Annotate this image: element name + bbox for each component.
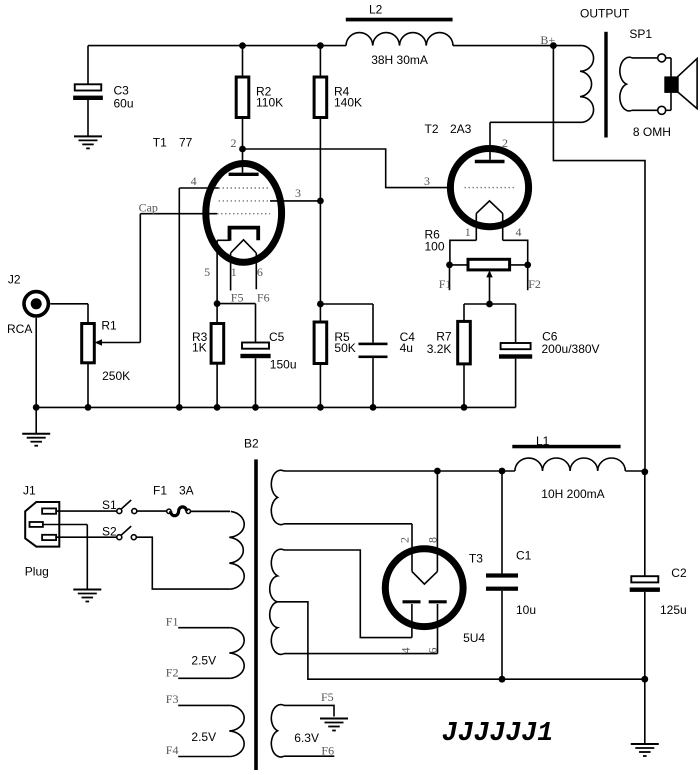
svg-text:4: 4 <box>516 225 522 239</box>
svg-text:140K: 140K <box>334 96 362 110</box>
svg-text:JJJJJJ1: JJJJJJ1 <box>442 718 553 748</box>
svg-text:Plug: Plug <box>25 564 49 578</box>
svg-text:F4: F4 <box>166 743 179 757</box>
svg-text:110K: 110K <box>256 96 283 110</box>
svg-text:T1: T1 <box>153 136 167 150</box>
svg-text:10u: 10u <box>516 603 536 617</box>
svg-text:77: 77 <box>179 136 193 150</box>
svg-text:B2: B2 <box>244 437 259 451</box>
svg-text:C1: C1 <box>516 549 532 563</box>
svg-text:2: 2 <box>502 136 508 150</box>
svg-text:125u: 125u <box>660 603 687 617</box>
svg-text:6: 6 <box>426 648 440 654</box>
svg-text:OUTPUT: OUTPUT <box>580 7 630 21</box>
svg-text:8: 8 <box>426 537 440 543</box>
svg-text:6: 6 <box>257 265 263 279</box>
svg-text:Cap: Cap <box>139 201 158 215</box>
svg-text:J1: J1 <box>23 484 36 498</box>
svg-text:L1: L1 <box>536 434 550 448</box>
svg-text:1: 1 <box>231 265 237 279</box>
svg-text:60u: 60u <box>114 96 134 110</box>
svg-text:F2: F2 <box>528 277 541 291</box>
svg-text:1K: 1K <box>192 341 207 355</box>
svg-text:B+: B+ <box>540 33 555 47</box>
svg-text:3A: 3A <box>179 484 194 498</box>
svg-text:2: 2 <box>231 136 237 150</box>
svg-text:F5: F5 <box>231 290 244 304</box>
svg-text:4u: 4u <box>400 341 413 355</box>
svg-text:RCA: RCA <box>7 322 32 336</box>
svg-text:F3: F3 <box>166 692 179 706</box>
svg-text:F1: F1 <box>439 277 452 291</box>
svg-text:C2: C2 <box>671 566 687 580</box>
svg-text:SP1: SP1 <box>629 27 652 41</box>
svg-text:3.2K: 3.2K <box>427 342 452 356</box>
svg-text:T3: T3 <box>469 552 483 566</box>
svg-text:4: 4 <box>191 174 197 188</box>
svg-text:F5: F5 <box>321 690 334 704</box>
svg-text:F6: F6 <box>321 743 334 757</box>
svg-text:150u: 150u <box>270 357 297 371</box>
svg-text:S2: S2 <box>102 525 117 539</box>
svg-text:100: 100 <box>425 239 445 253</box>
svg-text:T2: T2 <box>425 122 439 136</box>
svg-text:C5: C5 <box>269 330 285 344</box>
svg-text:6.3V: 6.3V <box>294 731 319 745</box>
svg-text:3: 3 <box>424 174 430 188</box>
svg-text:3: 3 <box>295 186 301 200</box>
svg-text:200u/380V: 200u/380V <box>542 342 600 356</box>
svg-text:S1: S1 <box>102 498 117 512</box>
svg-text:5: 5 <box>204 265 210 279</box>
svg-text:2.5V: 2.5V <box>191 653 216 667</box>
svg-text:1: 1 <box>465 225 471 239</box>
svg-text:R1: R1 <box>101 318 117 332</box>
svg-text:F6: F6 <box>257 290 270 304</box>
svg-text:50K: 50K <box>334 341 355 355</box>
svg-text:2.5V: 2.5V <box>191 730 216 744</box>
svg-text:F1: F1 <box>153 484 167 498</box>
svg-text:8 OMH: 8 OMH <box>633 125 671 139</box>
svg-text:F1: F1 <box>166 615 179 629</box>
svg-text:4: 4 <box>399 648 413 654</box>
svg-text:38H 30mA: 38H 30mA <box>371 53 428 67</box>
svg-text:250K: 250K <box>102 369 130 383</box>
svg-text:L2: L2 <box>369 3 383 17</box>
svg-text:J2: J2 <box>8 272 21 286</box>
svg-text:2A3: 2A3 <box>450 122 472 136</box>
svg-text:F2: F2 <box>166 666 179 680</box>
svg-text:5U4: 5U4 <box>463 631 485 645</box>
svg-text:10H 200mA: 10H 200mA <box>541 487 604 501</box>
svg-text:2: 2 <box>398 537 412 543</box>
